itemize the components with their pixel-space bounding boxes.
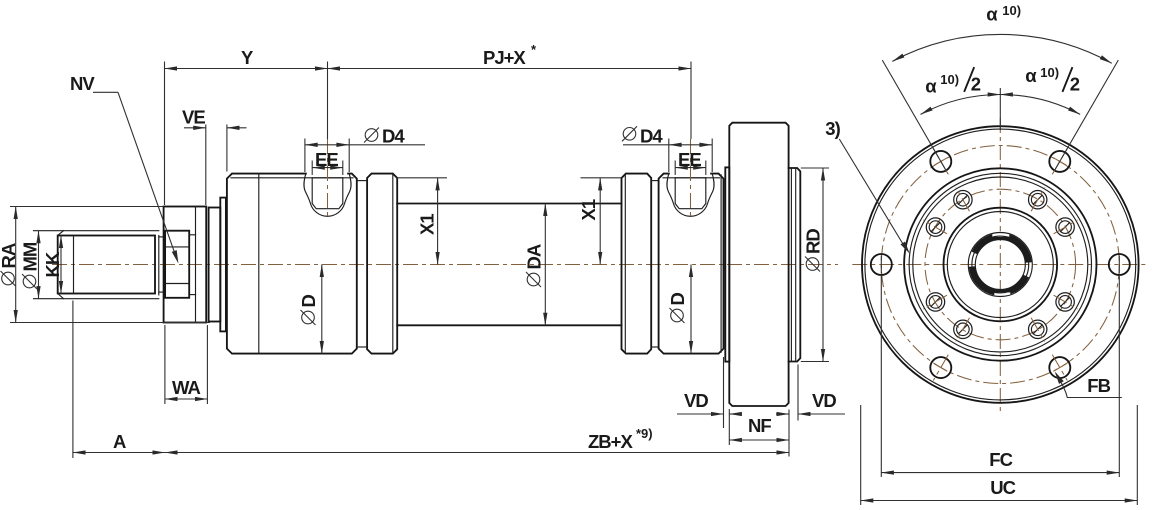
dimension UC bbox=[860, 405, 862, 505]
svg-text:KK: KK bbox=[42, 251, 63, 277]
svg-text:D4: D4 bbox=[382, 126, 405, 147]
svg-text:WA: WA bbox=[172, 377, 200, 398]
label dia D4 right bbox=[623, 128, 636, 141]
dimension DA bbox=[544, 204, 546, 326]
dimension VE bbox=[205, 125, 207, 206]
dimension ZB+X*9) bbox=[788, 410, 790, 457]
front view group bbox=[852, 118, 1148, 411]
bolt hole 300deg bbox=[1049, 357, 1070, 378]
svg-text:ZB+X: ZB+X bbox=[588, 431, 633, 452]
vertical tick at top bbox=[999, 88, 1001, 130]
left housing groove bbox=[357, 180, 367, 182]
svg-text:3): 3) bbox=[825, 118, 840, 139]
right housing ring bbox=[622, 174, 652, 354]
svg-text:10): 10) bbox=[1002, 3, 1021, 18]
screw 300deg bbox=[1029, 320, 1047, 338]
flange disc NF bbox=[729, 123, 788, 406]
boss circles bbox=[944, 208, 1058, 322]
svg-text:10): 10) bbox=[940, 72, 959, 87]
side view group bbox=[34, 123, 839, 406]
svg-text:D4: D4 bbox=[640, 126, 663, 147]
bolt circle FC bbox=[881, 146, 1119, 384]
svg-text:α: α bbox=[925, 76, 937, 97]
alpha extension line right bbox=[1055, 60, 1119, 170]
bolt hole 120deg bbox=[930, 151, 951, 172]
screw 60deg bbox=[1029, 191, 1047, 209]
svg-text:MM: MM bbox=[20, 242, 41, 271]
svg-text:X1: X1 bbox=[417, 214, 438, 235]
svg-text:VD: VD bbox=[812, 390, 836, 411]
dimension Y bbox=[164, 62, 166, 206]
threaded journal KK core bbox=[58, 236, 155, 294]
svg-text:RA: RA bbox=[0, 243, 19, 268]
shaft end disc RA bbox=[164, 207, 207, 323]
half alpha arc right bbox=[1000, 95, 1080, 115]
left grease port bore EE bbox=[312, 178, 343, 209]
dimension MM bbox=[38, 231, 40, 299]
screw radial marks bbox=[1054, 220, 1078, 234]
half alpha arc left bbox=[921, 95, 1001, 115]
spacer ring 2 VE bbox=[220, 198, 226, 332]
dimension VD right bbox=[797, 365, 799, 421]
left grease port funnel bbox=[307, 172, 347, 175]
left bearing housing body bbox=[227, 174, 357, 354]
svg-text:NF: NF bbox=[748, 415, 771, 436]
right housing groove bbox=[651, 180, 658, 182]
shaft middle DA bbox=[397, 203, 621, 205]
svg-text:RD: RD bbox=[803, 229, 824, 254]
svg-text:*9): *9) bbox=[636, 426, 653, 441]
svg-text:VD: VD bbox=[684, 390, 708, 411]
dimension X1 right bbox=[581, 177, 622, 179]
svg-text:D: D bbox=[298, 295, 319, 308]
front center line vertical bbox=[999, 118, 1001, 411]
screw 240deg bbox=[954, 320, 972, 338]
washer behind nut bbox=[195, 207, 197, 323]
right grease port bore EE bbox=[675, 178, 706, 209]
right grease port funnel bbox=[670, 172, 710, 175]
svg-text:A: A bbox=[113, 431, 126, 452]
dimension NF bbox=[728, 409, 730, 445]
svg-text:Y: Y bbox=[241, 47, 254, 68]
svg-text:α: α bbox=[1025, 65, 1037, 86]
threaded journal MM outer lines bbox=[34, 230, 159, 232]
dimension VD left bbox=[723, 357, 725, 428]
screw 210deg bbox=[926, 293, 944, 311]
svg-text:VE: VE bbox=[182, 107, 205, 128]
dimension KK bbox=[60, 236, 62, 294]
dimension X1 left bbox=[397, 177, 447, 179]
svg-text:NV: NV bbox=[70, 73, 95, 94]
pilot circle RD bbox=[904, 168, 1096, 360]
bolt hole 0deg bbox=[1109, 254, 1130, 275]
svg-text:EE: EE bbox=[678, 149, 701, 170]
svg-text:FC: FC bbox=[989, 449, 1012, 470]
right grease port center line bbox=[690, 139, 692, 220]
lock nut NV bbox=[165, 231, 189, 298]
inner ring circles bbox=[909, 173, 1091, 355]
svg-text:10): 10) bbox=[1040, 65, 1059, 80]
alpha extension line left bbox=[882, 60, 946, 170]
left grease port center line bbox=[327, 139, 329, 220]
dimension D4 right bbox=[668, 139, 670, 173]
dimension RD bbox=[801, 167, 829, 169]
center line axis bbox=[52, 264, 838, 266]
dimension D4 left bbox=[304, 139, 306, 173]
svg-text:FB: FB bbox=[1087, 375, 1110, 396]
front center line horizontal bbox=[852, 264, 1148, 266]
svg-text:DA: DA bbox=[524, 244, 545, 269]
front view dimensions bbox=[825, 3, 1137, 505]
bolt hole center ticks bbox=[1053, 158, 1066, 166]
spacer ring 1 bbox=[209, 208, 221, 322]
right bearing housing body bbox=[659, 174, 724, 354]
label dia D4 left bbox=[365, 129, 378, 142]
screw 120deg bbox=[954, 191, 972, 209]
dimension FC bbox=[880, 276, 882, 477]
left housing ring bbox=[367, 174, 397, 354]
flange outer circle bbox=[862, 126, 1139, 403]
svg-text:*: * bbox=[531, 42, 537, 57]
big alpha arc bbox=[892, 34, 1112, 63]
svg-text:2: 2 bbox=[971, 74, 981, 95]
bolt hole 180deg bbox=[871, 254, 892, 275]
dimension EE right bbox=[674, 161, 676, 176]
screw 30deg bbox=[1056, 218, 1074, 236]
bolt hole radial marks bbox=[1052, 149, 1067, 175]
collar RD right of flange bbox=[789, 168, 801, 362]
svg-text:2: 2 bbox=[1070, 74, 1080, 95]
bolt hole 60deg bbox=[1049, 151, 1070, 172]
dimension A bbox=[72, 301, 74, 459]
screw 330deg bbox=[1056, 293, 1074, 311]
side view dimensions bbox=[0, 42, 845, 458]
dimension EE left bbox=[311, 161, 313, 176]
flange rim inner circle bbox=[865, 129, 1136, 400]
bolt hole 240deg bbox=[930, 357, 951, 378]
screw circle bbox=[925, 189, 1076, 340]
dimension PJ+X* bbox=[327, 62, 329, 140]
dimension D left bbox=[321, 265, 323, 354]
center bore threaded ring bbox=[974, 236, 1028, 262]
dimension D right bbox=[690, 265, 692, 354]
svg-text:PJ+X: PJ+X bbox=[483, 47, 526, 68]
dimension WA bbox=[164, 325, 166, 404]
svg-text:D: D bbox=[667, 293, 688, 306]
dimension RA bbox=[10, 206, 164, 208]
leader FB bbox=[1056, 374, 1122, 398]
svg-text:α: α bbox=[986, 4, 998, 25]
collar VD left of flange bbox=[725, 167, 729, 361]
screw 150deg bbox=[926, 218, 944, 236]
svg-text:EE: EE bbox=[315, 149, 338, 170]
svg-text:UC: UC bbox=[990, 477, 1015, 498]
svg-text:X1: X1 bbox=[578, 199, 599, 220]
